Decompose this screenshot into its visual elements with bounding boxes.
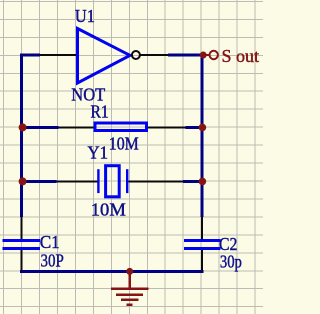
svg-text:30p: 30p: [220, 252, 242, 272]
capacitor C2 bottom plate: [184, 247, 221, 250]
junction bottom rail / ground: [126, 268, 133, 275]
svg-text:30P: 30P: [41, 251, 64, 271]
pin: C2 pin 2: [201, 250, 203, 272]
wire: R1 row left segment: [20, 126, 59, 129]
svg-text:U1: U1: [75, 6, 95, 26]
pin: C1 pin 2: [20, 250, 22, 272]
pin: C2 pin 1: [201, 217, 203, 240]
pin: C1 pin 1: [20, 217, 22, 240]
junction right bus / R1 row: [199, 124, 207, 132]
svg-text:10M: 10M: [91, 199, 126, 219]
wire: Y1 row left segment: [20, 180, 57, 183]
svg-text:10M: 10M: [109, 133, 139, 153]
ground symbol: [111, 272, 149, 305]
wire: R1 row right segment: [186, 126, 204, 129]
pin: R1 pin 1: [59, 126, 96, 128]
crystal Y1 body: [106, 166, 120, 197]
junction at U1 output / S out node: [200, 52, 207, 59]
pin: Y1 pin 2: [128, 180, 183, 182]
junction right bus / Y1 row: [199, 178, 207, 186]
junction left bus / Y1 row: [19, 177, 27, 185]
wire: bottom ground rail: [20, 270, 204, 273]
crystal Y1 right electrode: [126, 169, 128, 193]
pin: U1 input: [40, 54, 79, 56]
inverter U1 output bubble: [132, 51, 140, 59]
node S out: port stub: [203, 54, 210, 56]
op-amp triangle of inverter U1: [78, 29, 131, 84]
wire: inverter output to right vertical bus: [168, 55, 202, 217]
crystal Y1 left electrode: [97, 169, 99, 193]
pin: R1 pin 2: [147, 126, 186, 128]
svg-text:Y1: Y1: [88, 142, 109, 162]
pin: U1 output: [140, 54, 168, 56]
wire: Y1 row right segment: [183, 180, 204, 183]
capacitor C1 top plate: [3, 239, 40, 242]
resistor R1 body: [95, 123, 147, 131]
capacitor C1 bottom plate: [3, 247, 40, 250]
wire: top-left horizontal + left vertical bus: [22, 55, 41, 217]
svg-text:S out: S out: [222, 46, 260, 66]
svg-text:C1: C1: [40, 232, 60, 252]
capacitor C2 top plate: [184, 239, 221, 242]
node S out: open terminal circle: [210, 51, 218, 59]
junction left bus / R1 row: [19, 123, 27, 131]
svg-text:R1: R1: [91, 101, 109, 121]
pin: Y1 pin 1: [57, 180, 98, 182]
